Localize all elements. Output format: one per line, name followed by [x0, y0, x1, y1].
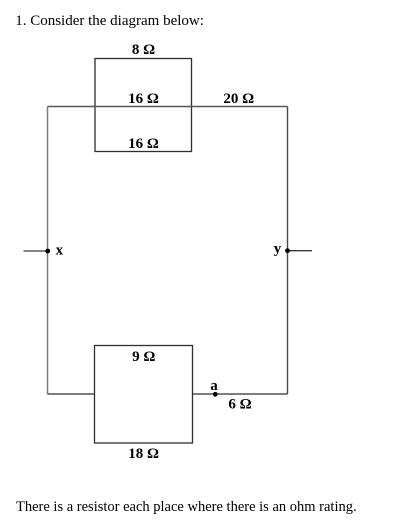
svg-text:There is a resistor each place: There is a resistor each place where the… [16, 499, 357, 515]
svg-text:16 Ω: 16 Ω [128, 136, 159, 152]
svg-text:16 Ω: 16 Ω [128, 91, 159, 107]
svg-text:a: a [210, 378, 218, 394]
top parallel box (8/16 ohm branches) [95, 59, 192, 152]
svg-text:9 Ω: 9 Ω [132, 349, 155, 365]
svg-text:1. Consider the diagram below:: 1. Consider the diagram below: [15, 13, 204, 29]
node y (junction dot) [285, 248, 290, 253]
svg-text:x: x [56, 243, 64, 259]
node a (junction dot) [213, 392, 218, 397]
wire: right rail [287, 107, 289, 395]
bottom parallel box (9/18 ohm branches) [95, 346, 193, 444]
svg-text:y: y [274, 241, 282, 257]
wire: terminal stub at x [24, 250, 48, 252]
wire: terminal stub at y [288, 250, 313, 252]
svg-text:6 Ω: 6 Ω [228, 397, 251, 413]
svg-text:8 Ω: 8 Ω [132, 42, 155, 58]
svg-text:18 Ω: 18 Ω [128, 446, 159, 462]
wire: left rail [47, 107, 49, 395]
node x (junction dot) [45, 249, 50, 254]
wire: bottom right segment (through node a, 6 ohm) [193, 393, 288, 395]
wire: bottom left segment [48, 393, 95, 395]
wire: middle horizontal rail through top box (16 ohm / 20 ohm) [48, 106, 288, 108]
svg-text:20 Ω: 20 Ω [223, 91, 254, 107]
